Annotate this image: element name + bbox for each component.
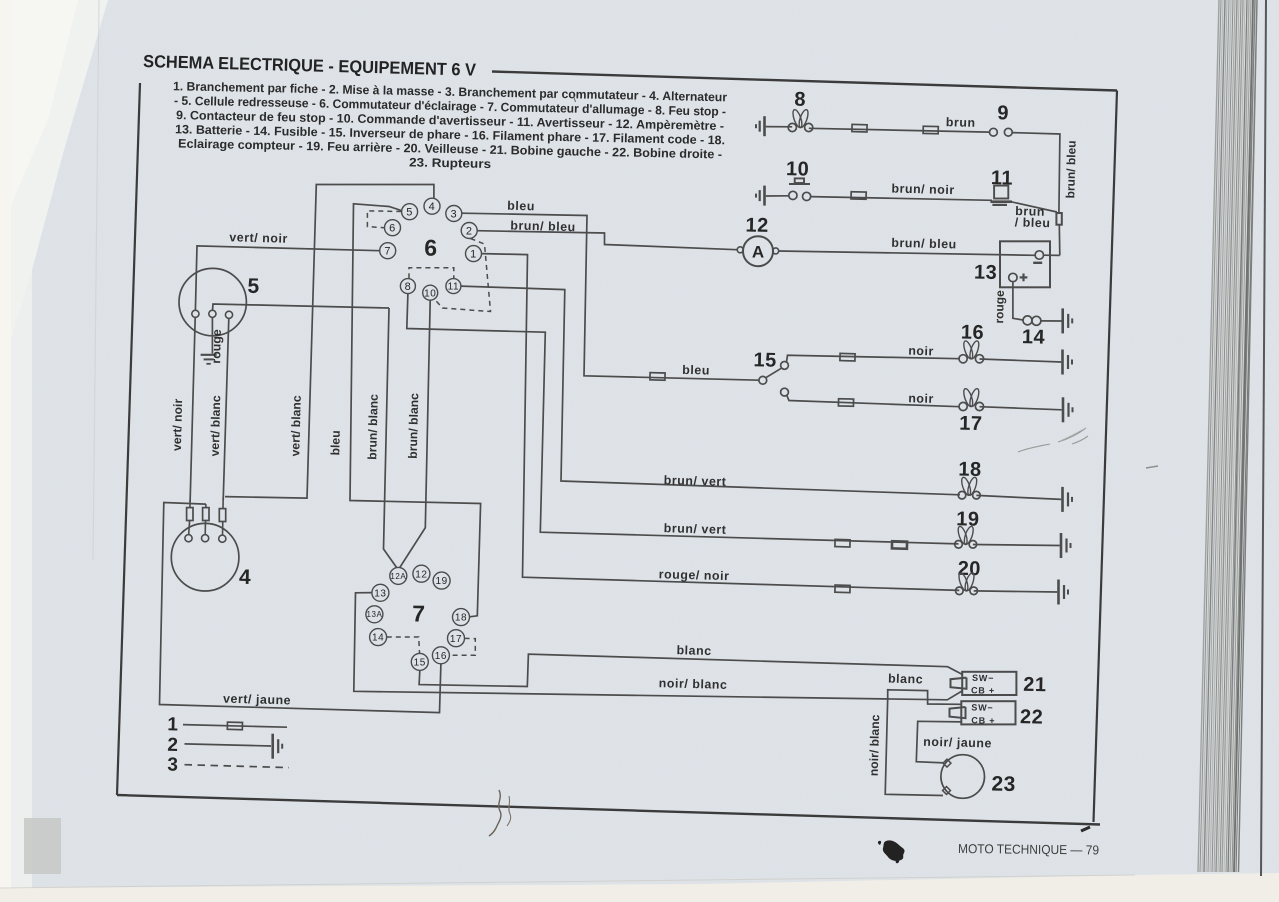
terminal 8 of connector 6 [400, 279, 415, 294]
svg-text:rouge: rouge [992, 290, 1007, 324]
ground right of 18 [1061, 487, 1064, 512]
svg-text:brun/ bleu: brun/ bleu [1063, 140, 1078, 198]
svg-text:noir: noir [908, 391, 934, 406]
wire brun/vert: connector6 terminal 8 down and right to bulb 19 [407, 294, 959, 544]
wire horn to brun/bleu drop [1009, 201, 1057, 212]
wire bulb 16 to ground [980, 359, 1062, 362]
wire bulb 19 to ground [973, 545, 1060, 546]
wire bleu: connector6 terminal 5 left and down to connector7 terminal 18 [350, 204, 481, 617]
svg-text:16: 16 [961, 322, 985, 344]
svg-text:bleu: bleu [682, 363, 710, 378]
svg-text:2: 2 [167, 735, 179, 756]
svg-text:brun/ noir: brun/ noir [891, 181, 955, 197]
wire from 5 mid terminal up and right to brun/blanc drop [213, 304, 390, 310]
svg-text:rouge: rouge [209, 329, 224, 364]
terminal 10 of connector 6 [423, 285, 438, 300]
svg-text:SW−: SW− [971, 702, 993, 712]
outer page edge line [1261, 0, 1266, 876]
ground right of 20 [1057, 580, 1060, 605]
terminal 1 of connector 6 [466, 246, 482, 262]
svg-text:brun/ blanc: brun/ blanc [406, 393, 422, 459]
svg-text:rouge/ noir: rouge/ noir [659, 567, 730, 583]
fiche on row 19 a [835, 539, 850, 547]
svg-text:vert/ jaune: vert/ jaune [223, 692, 291, 708]
fuse links above 4 [187, 508, 193, 521]
svg-text:bleu: bleu [507, 199, 535, 214]
terminal 12A of connector 7 [390, 567, 407, 584]
wire brun: lamp 8 to switch 9 [809, 128, 990, 132]
svg-text:6: 6 [389, 223, 396, 235]
fiche on row 19 b (bold) [892, 541, 907, 549]
svg-text:vert/ blanc: vert/ blanc [288, 395, 303, 457]
ground left of 8 [763, 116, 766, 136]
wire 4 mid terminal stub [204, 521, 206, 535]
svg-text:5: 5 [247, 275, 260, 298]
terminal 14 of connector 7 [370, 629, 387, 646]
ground right of 14 [1061, 308, 1064, 333]
svg-text:noir/ jaune: noir/ jaune [923, 735, 992, 751]
svg-text:noir: noir [908, 344, 934, 359]
svg-text:CB +: CB + [971, 685, 995, 695]
terminal 19 of connector 7 [433, 572, 450, 589]
svg-text:4: 4 [239, 566, 252, 589]
plug arrow 22 [950, 707, 966, 718]
wire fuse to ground [1041, 320, 1062, 322]
wire brun/blanc 1: from 5 mid wire down to connector7 12A [384, 308, 397, 568]
dashed bracket over 8 and 11 [409, 268, 454, 279]
fiche on brun/noir [851, 192, 866, 200]
svg-text:7: 7 [412, 600, 426, 626]
terminals of 5 [192, 310, 199, 317]
terminal 6 of connector 6 [385, 220, 401, 236]
wire bulb 17 to ground [980, 407, 1062, 410]
svg-text:20: 20 [957, 558, 981, 580]
svg-text:15: 15 [753, 349, 777, 371]
dashed link 14-15 [387, 637, 420, 653]
vertical fiche on brun/bleu drop [1056, 213, 1061, 225]
terminal 5 of connector 6 [402, 204, 418, 220]
wire 4 left terminal stub [188, 521, 191, 535]
terminal 17 of connector 7 [448, 630, 465, 647]
svg-text:1: 1 [167, 714, 179, 735]
dashed link 17-16 [450, 638, 476, 655]
wire fiche to battery minus junction [1058, 225, 1061, 256]
svg-text:vert/ noir: vert/ noir [229, 230, 288, 246]
wire bulb 20 to ground [974, 591, 1058, 592]
wire battery minus to drop junction [1044, 254, 1060, 256]
terminal 13A of connector 7 [366, 606, 383, 623]
terminal 13 of connector 7 [372, 584, 389, 601]
small dash mark near frame corner [1081, 827, 1090, 831]
svg-text:brun: brun [946, 115, 976, 130]
svg-text:19: 19 [956, 508, 980, 530]
wire brun/blanc 2: connector6 terminal 10 down to connector7 12A [400, 300, 430, 567]
svg-text:13: 13 [374, 588, 386, 599]
fiche on bleu wire [650, 373, 665, 381]
svg-text:17: 17 [450, 634, 462, 645]
svg-text:vert/ noir: vert/ noir [170, 398, 185, 451]
wire brun/bleu: ammeter to battery minus [779, 251, 1035, 255]
svg-text:12A: 12A [390, 572, 406, 581]
wire rouge/noir: connector6 terminal 1 down and right to bulb 20 [482, 254, 960, 591]
svg-text:brun/ vert: brun/ vert [664, 521, 727, 537]
svg-text:brun/ bleu: brun/ bleu [510, 218, 576, 234]
ground rouge under 5 [211, 317, 213, 353]
branch noir/blanc down to points 23 [885, 698, 943, 795]
svg-text:bleu: bleu [328, 430, 343, 455]
wire 4 right terminal stub [222, 522, 224, 536]
wire loop from connector6 terminal 4 over the top and down (vert/blanc) [225, 185, 434, 499]
svg-text:4: 4 [429, 201, 436, 213]
svg-text:1: 1 [470, 249, 477, 261]
svg-text:6: 6 [424, 235, 438, 261]
wire vert/noir vertical: 5 left terminal down to 4 left fuse [190, 317, 195, 502]
fiche on wire 8 a [852, 124, 867, 132]
wire brun/vert: connector6 terminal 11 down and right to bulb 18 [461, 286, 960, 495]
terminal 2 of connector 6 [461, 223, 477, 239]
terminal 12 of connector 7 [413, 565, 430, 582]
svg-text:noir/ blanc: noir/ blanc [659, 676, 728, 692]
plug arrow 21 [951, 678, 967, 689]
svg-text:brun/ blanc: brun/ blanc [365, 394, 381, 460]
wire noir: 15 upper contact to bulb 16 [787, 355, 960, 362]
book page edge band [1199, 0, 1258, 872]
svg-text:13: 13 [974, 262, 998, 284]
fiche on row 20 [835, 585, 850, 593]
svg-text:CB +: CB + [971, 715, 995, 725]
svg-text:noir/ blanc: noir/ blanc [867, 714, 883, 776]
frame right border [1094, 91, 1118, 823]
svg-text:22: 22 [1020, 706, 1044, 728]
wire brun/bleu: connector6 terminal 2 to ammeter [477, 231, 736, 250]
svg-text:3: 3 [450, 208, 457, 220]
svg-text:blanc: blanc [676, 643, 711, 658]
svg-text:brun/ bleu: brun/ bleu [891, 236, 957, 252]
svg-text:8: 8 [405, 281, 412, 293]
svg-text:10: 10 [786, 158, 810, 180]
small tick above legend [574, 96, 576, 102]
terminal 18 of connector 7 [453, 609, 470, 626]
svg-text:3: 3 [167, 755, 179, 776]
ground left of 10 [763, 186, 766, 206]
wire noir/jaune: coil 22 CB down to points 23 [916, 721, 961, 763]
svg-text:16: 16 [435, 651, 447, 662]
ink blob smudge [878, 840, 905, 863]
wire vert/blanc: 5 right terminal down to 4 right fuse [223, 318, 229, 500]
wire bulb 18 to ground [976, 495, 1061, 499]
svg-text:19: 19 [435, 576, 447, 587]
terminal 16 of connector 7 [432, 647, 449, 664]
svg-text:9: 9 [997, 102, 1009, 124]
terminal 11 of connector 6 [446, 279, 461, 294]
wire vert/noir: connector6-7 terminal to rectifier left [195, 246, 379, 310]
ground right of 19 [1060, 533, 1063, 558]
svg-text:15: 15 [414, 658, 426, 669]
svg-text:vert/ blanc: vert/ blanc [208, 395, 223, 457]
dashed link 5-6 [367, 211, 401, 228]
svg-text:blanc: blanc [888, 672, 923, 687]
wire noir/blanc: connector7 terminal 13 left, down and right to coil 21 CB [354, 593, 962, 700]
svg-text:8: 8 [794, 89, 806, 111]
svg-text:SW−: SW− [972, 673, 994, 683]
svg-text:11: 11 [448, 282, 459, 293]
svg-text:/ bleu: / bleu [1015, 215, 1051, 230]
svg-text:12: 12 [745, 214, 769, 236]
svg-text:MOTO TECHNIQUE — 79: MOTO TECHNIQUE — 79 [958, 841, 1099, 857]
svg-text:23. Rupteurs: 23. Rupteurs [409, 155, 491, 171]
svg-text:21: 21 [1023, 674, 1047, 696]
svg-text:14: 14 [1022, 326, 1046, 348]
wire bleu: connector6 terminal 3 right and down to switch 15 [462, 213, 759, 380]
wire brun/noir: button 10 to horn 11 [811, 197, 992, 201]
svg-text:18: 18 [455, 613, 467, 624]
svg-text:17: 17 [959, 413, 983, 435]
svg-text:5: 5 [406, 207, 413, 219]
terminal 7 of connector 6 [380, 243, 396, 259]
wire blanc: connector7 terminal 15 to coil 21 SW [419, 654, 962, 686]
title underline / frame top border [492, 72, 1117, 91]
wire noir: 15 lower contact to bulb 17 [787, 395, 960, 406]
terminal 3 of connector 6 [446, 206, 462, 222]
legend paragraph [173, 79, 727, 171]
svg-text:10: 10 [424, 288, 436, 299]
fiber hair bottom center [489, 790, 501, 836]
terminal 4 of connector 6 [424, 198, 440, 214]
ground right of 17 [1062, 397, 1065, 422]
wire rouge: battery plus down to fuse 14 [1013, 282, 1023, 320]
wire vert/jaune: 4 mid fuse up over left and down to bottom row [160, 503, 441, 713]
wire ground to lamp 8 [766, 126, 792, 128]
terminals of 4 [185, 535, 192, 542]
rectifier cell 5 [179, 268, 246, 335]
svg-text:14: 14 [372, 633, 384, 644]
branch noir/blanc up-over to coil 22 SW [888, 690, 962, 705]
svg-text:brun/ vert: brun/ vert [664, 473, 727, 489]
fiche on wire 8 b [923, 126, 938, 134]
alternator 4 [171, 523, 239, 591]
ground right of 16 [1061, 350, 1064, 375]
svg-text:2: 2 [466, 225, 473, 237]
wire from 9 down to horn junction (brun/bleu) [1012, 133, 1060, 213]
terminal diamonds of 23 [943, 759, 951, 767]
frame left border [117, 83, 140, 795]
svg-text:12: 12 [415, 569, 427, 580]
frame bottom border [117, 795, 1100, 825]
svg-text:23: 23 [991, 773, 1016, 797]
terminal 15 of connector 7 [411, 653, 428, 670]
dashed link 2-10 [435, 239, 491, 312]
svg-text:A: A [752, 242, 764, 261]
faint scribbles right middle [1018, 428, 1088, 452]
svg-text:13A: 13A [366, 610, 382, 619]
svg-text:7: 7 [384, 246, 391, 258]
